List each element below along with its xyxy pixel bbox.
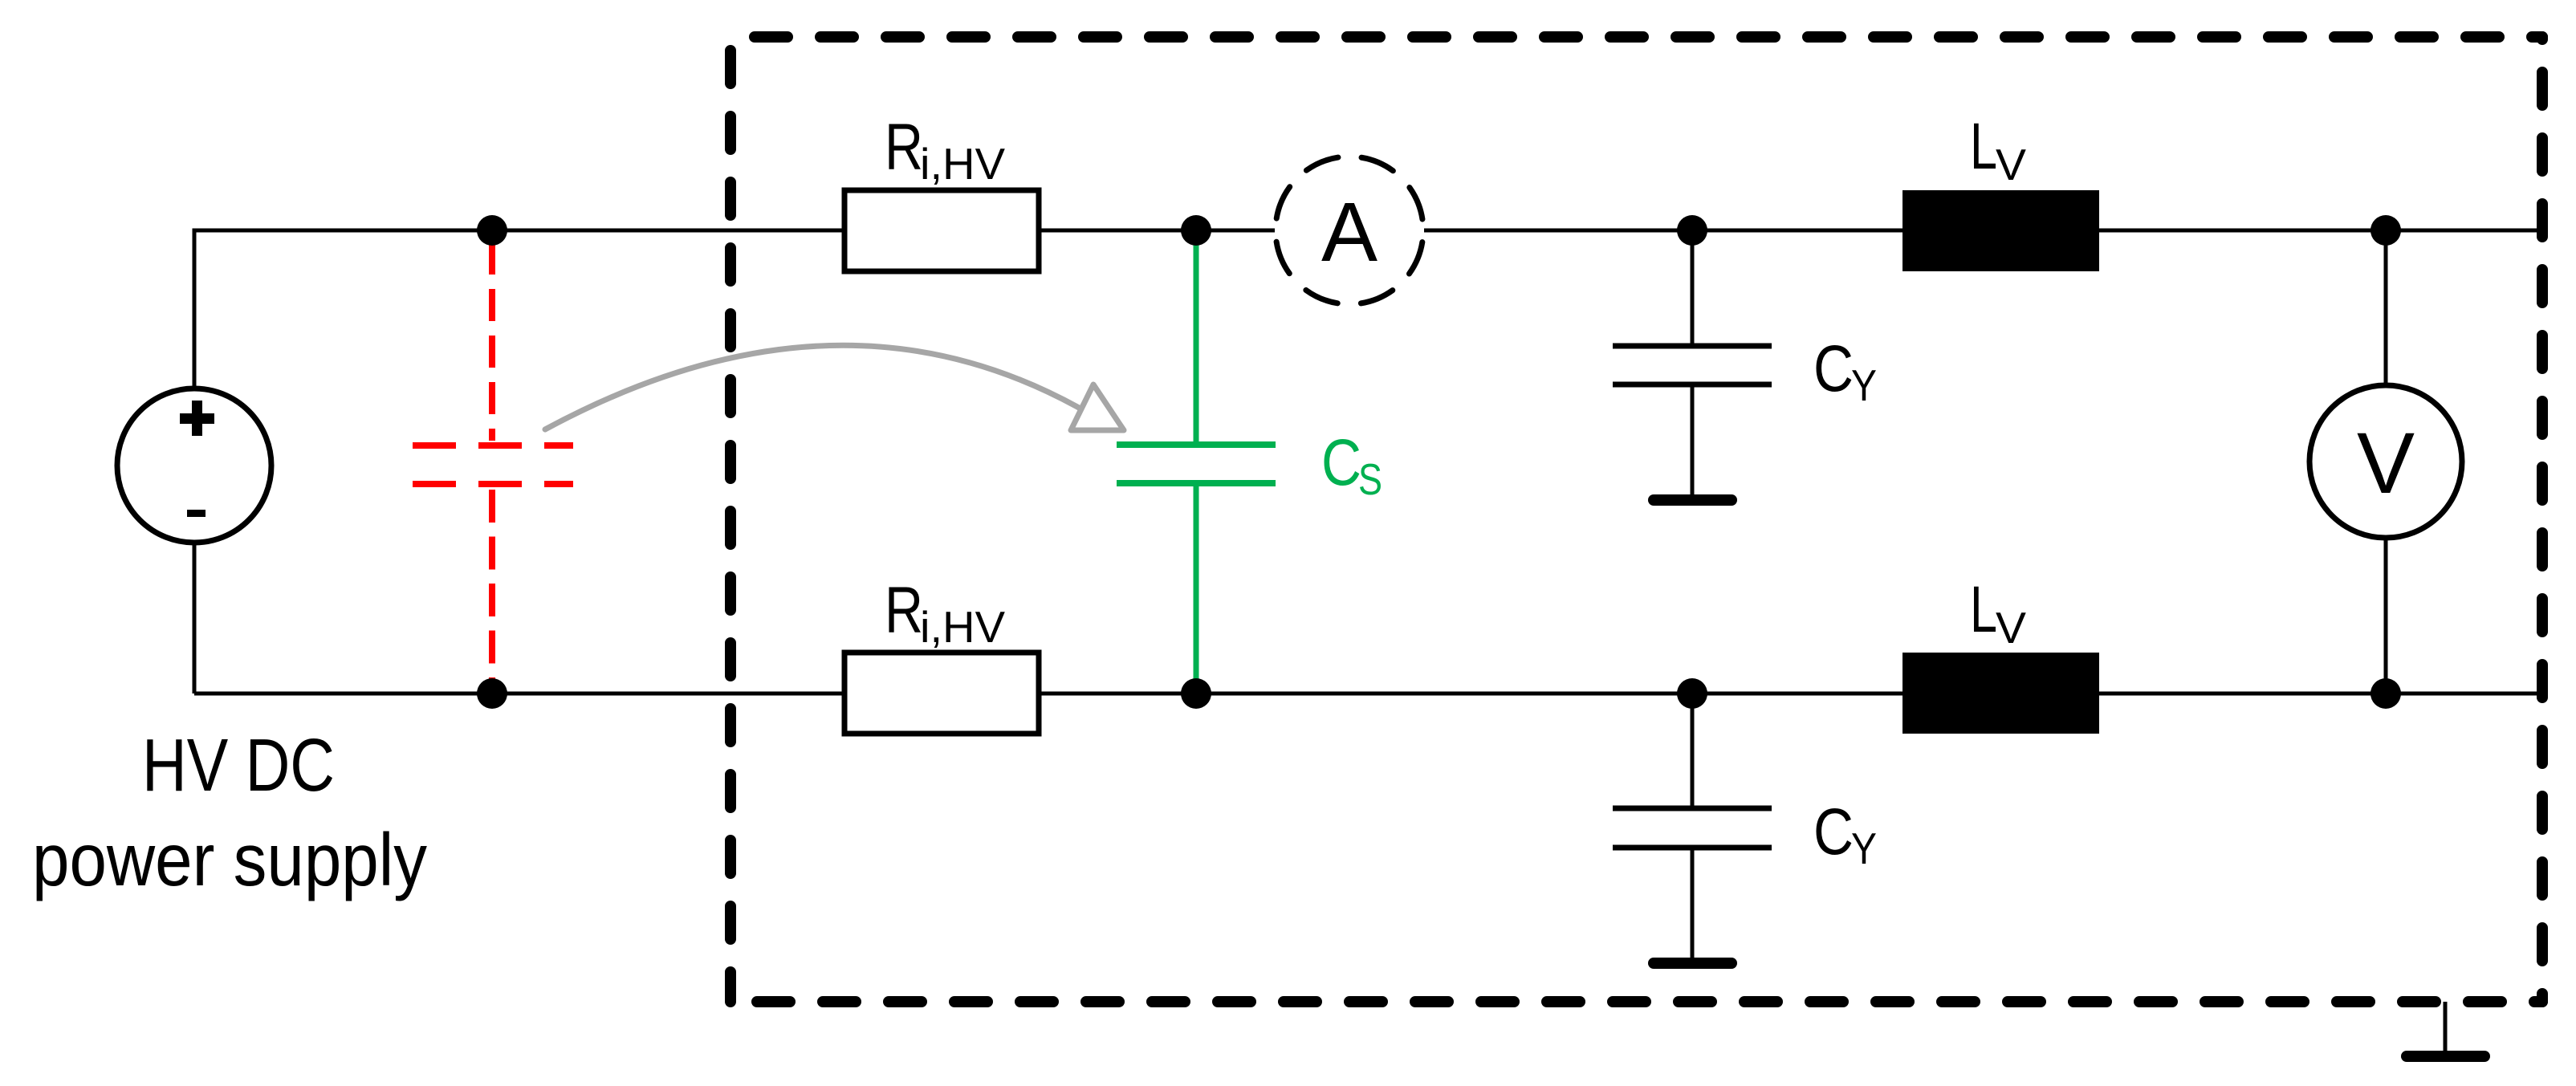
svg-text:V: V — [1996, 140, 2026, 189]
svg-text:R: R — [885, 574, 923, 647]
svg-text:R: R — [885, 111, 923, 184]
wire top rail ammeter to inductor — [1424, 229, 1902, 233]
ground bar bottom right — [2401, 1051, 2490, 1062]
capacitor CS green top lead — [1194, 242, 1199, 445]
node dot top V tap — [2370, 215, 2401, 246]
parasitic capacitor red bottom plate — [413, 481, 573, 487]
parasitic capacitor red dashed top lead — [489, 242, 495, 441]
dashed measurement-box border right — [2537, 37, 2548, 1002]
svg-text:HV DC: HV DC — [142, 723, 335, 807]
capacitor CY bottom plate lower — [1613, 845, 1772, 851]
capacitor CY bottom plate upper — [1613, 806, 1772, 811]
plus sign — [180, 413, 214, 424]
gray arrow open triangle head — [1071, 384, 1124, 430]
voltmeter V lead bottom — [2384, 536, 2388, 693]
svg-text:Y: Y — [1851, 360, 1877, 410]
dashed measurement-box border top — [730, 31, 2542, 43]
voltage source U1 circle — [117, 388, 271, 543]
ground bar CY top — [1648, 494, 1737, 506]
node dot top CY tap — [1677, 215, 1707, 246]
svg-text:power supply: power supply — [32, 818, 427, 901]
resistor Ri,HV top box — [844, 190, 1039, 271]
ground bar CY bottom — [1648, 958, 1737, 969]
node dot bottom CS tap — [1181, 678, 1211, 709]
svg-text:A: A — [1321, 185, 1378, 279]
svg-text:L: L — [1970, 573, 1997, 646]
svg-text:C: C — [1321, 426, 1361, 499]
svg-text:C: C — [1813, 332, 1854, 405]
node dot bottom red tap — [477, 678, 507, 709]
capacitor CS green bottom plate — [1117, 480, 1276, 486]
svg-text:i,HV: i,HV — [920, 139, 1005, 189]
wire bottom rail inductor to border — [2099, 692, 2542, 696]
minus sign — [187, 510, 206, 517]
wire top rail left segment — [193, 542, 197, 693]
capacitor CY top plate lower — [1613, 382, 1772, 388]
node dot top red tap — [477, 215, 507, 246]
capacitor CY top plate upper — [1613, 344, 1772, 349]
ground lead bottom right — [2444, 1002, 2448, 1051]
svg-text:V: V — [1996, 603, 2026, 653]
node dot top CS tap — [1181, 215, 1211, 246]
capacitor CY bottom ground lead — [1691, 848, 1695, 958]
dashed measurement-box border bottom — [730, 996, 2542, 1007]
svg-text:C: C — [1813, 795, 1854, 868]
svg-text:L: L — [1970, 110, 1997, 183]
resistor Ri,HV bottom box — [844, 653, 1039, 734]
capacitor CY top ground lead — [1691, 384, 1695, 494]
svg-text:i,HV: i,HV — [920, 602, 1005, 652]
parasitic capacitor red bottom lead — [489, 490, 495, 689]
inductor LV top block — [1902, 190, 2099, 271]
inductor LV bottom block — [1902, 653, 2099, 734]
capacitor CS green bottom lead — [1194, 483, 1199, 693]
capacitor CY bottom lead — [1691, 703, 1695, 808]
wire top rail inductor to border — [2099, 229, 2542, 233]
ammeter A dashed circle — [1276, 157, 1423, 304]
dashed measurement-box border left — [725, 37, 736, 1002]
capacitor CY top lead — [1691, 241, 1695, 346]
wire source top vertical — [194, 230, 844, 389]
svg-text:S: S — [1358, 454, 1382, 504]
svg-text:Y: Y — [1851, 824, 1877, 873]
capacitor CS green top plate — [1117, 441, 1276, 448]
wire bottom rail — [194, 692, 844, 696]
wire bottom rail resistor to inductor — [1039, 692, 1902, 696]
voltmeter V lead top — [2384, 230, 2388, 387]
voltmeter V circle — [2309, 385, 2462, 538]
svg-text:V: V — [2357, 414, 2415, 511]
wire top rail resistor to ammeter — [1039, 229, 1275, 233]
node dot bottom V tap — [2370, 678, 2401, 709]
gray arrow curve — [545, 345, 1079, 429]
node dot bottom CY tap — [1677, 678, 1707, 709]
parasitic capacitor red top plate — [413, 442, 573, 449]
